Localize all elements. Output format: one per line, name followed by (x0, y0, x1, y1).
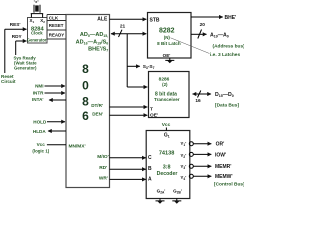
svg-text:3:8: 3:8 (163, 164, 171, 170)
svg-text:G2A': G2A' (157, 188, 166, 194)
svg-text:IOW': IOW' (215, 153, 226, 159)
svg-text:MN/MX': MN/MX' (69, 144, 86, 150)
svg-text:ALE: ALE (97, 16, 108, 22)
svg-text:Circuit: Circuit (1, 79, 16, 84)
svg-text:S3-S7: S3-S7 (143, 64, 155, 70)
svg-text:CLK: CLK (49, 15, 59, 20)
svg-text:AD16—A19/S6: AD16—A19/S6 (76, 39, 109, 45)
svg-text:Y1': Y1' (180, 141, 186, 147)
svg-text:T: T (150, 106, 153, 112)
svg-text:Y4': Y4' (180, 175, 186, 181)
svg-text:Generator): Generator) (14, 66, 37, 71)
svg-text:DEN': DEN' (92, 111, 103, 116)
svg-text:STB: STB (150, 18, 160, 24)
svg-text:[Control Bus]: [Control Bus] (214, 182, 244, 188)
svg-text:OE': OE' (150, 113, 158, 119)
svg-text:G2B': G2B' (173, 188, 182, 194)
svg-text:8 Bit Latch: 8 Bit Latch (157, 41, 181, 46)
svg-text:M/IO': M/IO' (97, 154, 109, 160)
svg-text:INTR: INTR (33, 90, 44, 95)
svg-text:A19—A0: A19—A0 (210, 32, 229, 38)
svg-text:20: 20 (200, 22, 206, 28)
svg-text:RES': RES' (10, 22, 21, 27)
svg-text:MEMW': MEMW' (215, 174, 233, 180)
svg-text:"x": "x" (34, 0, 40, 4)
svg-text:INTA': INTA' (32, 97, 43, 102)
svg-text:Vcc: Vcc (162, 122, 171, 128)
svg-text:X2: X2 (40, 18, 45, 24)
svg-text:16: 16 (195, 98, 201, 104)
svg-text:(2): (2) (162, 82, 168, 87)
svg-text:OE': OE' (163, 53, 171, 58)
svg-text:C: C (148, 155, 152, 161)
svg-text:AD0—AD15,: AD0—AD15, (80, 32, 108, 38)
svg-text:i.e. 3 Latches: i.e. 3 Latches (210, 52, 240, 58)
svg-text:DT/R': DT/R' (91, 103, 103, 108)
svg-text:OR': OR' (216, 141, 225, 147)
svg-text:D15—D0: D15—D0 (215, 92, 234, 98)
svg-text:Vcc: Vcc (37, 142, 46, 147)
svg-text:0: 0 (82, 78, 89, 92)
svg-text:Y2': Y2' (180, 153, 186, 159)
svg-text:G1: G1 (164, 132, 170, 138)
svg-text:RDY: RDY (12, 34, 23, 39)
svg-text:RD': RD' (99, 165, 107, 171)
svg-text:NMI: NMI (35, 83, 43, 88)
svg-text:21: 21 (120, 24, 126, 30)
svg-text:A: A (148, 177, 152, 183)
svg-text:READY: READY (49, 32, 64, 37)
svg-text:8: 8 (82, 62, 89, 76)
svg-text:X1: X1 (30, 18, 35, 24)
svg-text:8: 8 (82, 95, 89, 109)
svg-text:Clock: Clock (31, 31, 43, 36)
svg-text:Generator: Generator (27, 37, 47, 42)
svg-text:[Data Bus]: [Data Bus] (215, 103, 239, 109)
svg-text:(N): (N) (164, 35, 171, 40)
svg-text:MEMR': MEMR' (215, 164, 231, 170)
svg-text:8282: 8282 (159, 28, 175, 35)
svg-text:74138: 74138 (159, 150, 175, 156)
svg-text:Transceiver: Transceiver (154, 97, 180, 102)
svg-text:BHE'/S7: BHE'/S7 (88, 47, 108, 53)
svg-text:RESET: RESET (49, 23, 64, 28)
svg-text:(logic 1): (logic 1) (32, 148, 49, 153)
svg-text:B: B (148, 166, 152, 172)
svg-text:HLDA: HLDA (33, 129, 46, 134)
svg-text:Decoder: Decoder (157, 171, 178, 177)
svg-text:WR': WR' (99, 175, 108, 181)
svg-text:Y3': Y3' (180, 164, 186, 170)
svg-text:BHE': BHE' (225, 15, 237, 21)
svg-text:HOLD: HOLD (33, 119, 47, 124)
svg-text:6: 6 (82, 109, 89, 123)
svg-text:(Address bus): (Address bus) (213, 43, 245, 49)
